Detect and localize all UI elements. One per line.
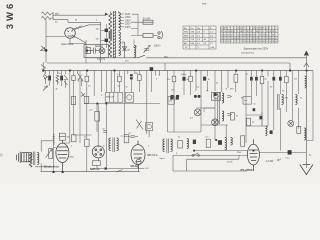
svg-text:s: s	[234, 28, 235, 30]
svg-text:mA: mA	[211, 46, 215, 49]
wire bus junction T1	[86, 46, 88, 54]
box B3	[211, 93, 220, 101]
wire verticals left group	[46, 71, 87, 173]
svg-text:2M: 2M	[135, 73, 138, 75]
capacitor C7 dark	[130, 77, 133, 79]
ground arrow	[300, 165, 313, 175]
svg-text:2k: 2k	[252, 122, 254, 124]
coil L3 pair core	[113, 138, 115, 153]
wire V x43 tuning	[41, 62, 46, 71]
wire mid horizontal left	[84, 104, 160, 133]
contact circles K3	[194, 95, 201, 98]
loudspeaker LS1	[17, 152, 32, 163]
resistor R18	[247, 118, 251, 126]
capacitor C16 dark	[259, 116, 262, 119]
svg-text:80: 80	[250, 34, 252, 36]
svg-text:41: 41	[221, 31, 223, 33]
resistor R30	[168, 97, 174, 105]
svg-text:53: 53	[272, 31, 274, 33]
trimmer arrow A1	[43, 86, 47, 91]
svg-text:1M: 1M	[294, 79, 297, 81]
svg-text:50k: 50k	[169, 100, 172, 102]
svg-text:87: 87	[250, 41, 252, 43]
svg-text:50k: 50k	[167, 79, 170, 81]
wire top feed	[53, 14, 106, 16]
wire bus H3	[43, 70, 313, 72]
label sprinkles band1	[44, 74, 302, 120]
svg-text:11: 11	[224, 34, 226, 36]
svg-text:37: 37	[227, 38, 229, 40]
fuse F1	[143, 20, 153, 24]
lamp La1	[99, 48, 105, 54]
svg-text:6k: 6k	[126, 87, 128, 89]
wire V5 anode right	[259, 151, 306, 153]
coil L2	[265, 126, 267, 136]
svg-text:68: 68	[253, 41, 255, 43]
switch S1	[138, 55, 145, 58]
trimmer caps T2	[227, 96, 232, 116]
coil L8	[304, 128, 306, 140]
mains plug P1	[153, 31, 163, 39]
svg-text:19: 19	[224, 31, 226, 33]
svg-text:1n: 1n	[101, 95, 103, 97]
svg-text:47: 47	[275, 38, 277, 40]
svg-text:71: 71	[221, 38, 223, 40]
transformer T1 secondary	[119, 13, 121, 56]
diode D1	[41, 46, 46, 51]
svg-text:4: 4	[262, 31, 263, 33]
svg-text:1M: 1M	[67, 137, 70, 139]
label right misc	[246, 74, 297, 81]
resistor R4	[56, 75, 59, 82]
capacitor C9 dark	[182, 77, 185, 81]
scan smudge left edge	[0, 154, 3, 157]
wire antenna vertical	[305, 56, 307, 168]
svg-text:1n: 1n	[300, 98, 302, 100]
resistor R26 on x87	[85, 139, 89, 146]
svg-text:e: e	[272, 28, 273, 30]
wire caps to loop	[101, 24, 107, 48]
svg-text:79: 79	[240, 41, 242, 43]
svg-text:63: 63	[247, 41, 249, 43]
resistor R12	[260, 76, 264, 83]
svg-text:50: 50	[266, 34, 268, 36]
capacitor C25 dark	[253, 108, 256, 111]
svg-text:6,3V: 6,3V	[120, 43, 125, 45]
svg-text:W: W	[75, 19, 77, 21]
svg-text:stat W: stat W	[227, 161, 233, 164]
wire grid loop	[53, 20, 101, 63]
node K2	[86, 50, 88, 52]
box B4 label	[243, 97, 252, 105]
svg-text:Skalenl.: Skalenl.	[95, 46, 104, 48]
resistor R8	[138, 75, 142, 81]
wire bottom mid	[35, 165, 144, 168]
svg-text:27: 27	[259, 31, 261, 33]
svg-text:54: 54	[256, 41, 258, 43]
svg-text:W: W	[206, 91, 208, 93]
coil L1	[305, 76, 307, 88]
svg-text:80: 80	[247, 34, 249, 36]
output transformer T4 core	[33, 152, 35, 166]
svg-text:5n: 5n	[246, 74, 248, 76]
bandfilter box BF1	[105, 93, 123, 103]
svg-text:30: 30	[221, 34, 223, 36]
svg-text:osz: osz	[244, 100, 247, 102]
resistor R14	[81, 92, 89, 103]
svg-text:12: 12	[221, 41, 223, 43]
IF T2 winding lower	[222, 111, 224, 121]
svg-text:W6e: W6e	[184, 32, 189, 34]
svg-text:74: 74	[250, 31, 252, 33]
capacitor C11 dark	[250, 77, 253, 81]
circle lamp La2	[194, 109, 201, 116]
variable capacitor C26	[144, 45, 150, 52]
resistor R28	[71, 97, 75, 105]
resistor R24	[178, 140, 183, 148]
resistor R19	[297, 126, 301, 133]
svg-text:a3: a3	[253, 28, 255, 30]
box tone B1	[146, 122, 153, 137]
svg-text:3n: 3n	[56, 89, 58, 91]
svg-text:74: 74	[253, 34, 255, 36]
svg-text:k: k	[227, 28, 228, 30]
svg-text:28: 28	[272, 34, 274, 36]
resistor R15	[95, 112, 100, 122]
svg-text:24: 24	[272, 38, 274, 40]
circle lamp La3	[288, 120, 294, 126]
svg-text:f2: f2	[262, 28, 264, 30]
svg-text:s2: s2	[266, 28, 268, 30]
svg-text:ant: ant	[55, 11, 59, 15]
coil L7	[231, 138, 233, 146]
coil L4 left	[163, 139, 165, 152]
svg-text:7: 7	[234, 34, 235, 36]
label poles	[155, 75, 161, 81]
svg-text:59: 59	[266, 41, 268, 43]
svg-text:12: 12	[243, 31, 245, 33]
diode D2	[122, 42, 126, 58]
svg-text:6: 6	[269, 34, 270, 36]
svg-text:81: 81	[269, 38, 271, 40]
wire mains vertical	[131, 14, 143, 35]
svg-text:5k: 5k	[187, 79, 189, 81]
svg-text:5: 5	[275, 34, 276, 36]
wire T1 taps	[110, 11, 124, 27]
capacitor C10 dark	[203, 77, 206, 81]
switch S3 tone	[136, 120, 143, 130]
resistor R5	[72, 76, 75, 81]
oscillator box BF2	[125, 93, 133, 103]
svg-text:220V~: 220V~	[154, 45, 162, 48]
trimmer C5	[64, 75, 69, 85]
svg-text:18: 18	[234, 38, 236, 40]
tube V4 oval	[131, 141, 145, 169]
capacitor C6 dark	[130, 74, 133, 76]
svg-text:9: 9	[237, 31, 238, 33]
svg-text:DKJe: DKJe	[131, 164, 138, 168]
svg-text:3W6: 3W6	[202, 4, 207, 6]
svg-text:3 W 6: 3 W 6	[5, 3, 16, 29]
svg-text:72: 72	[234, 41, 236, 43]
IF T2 winding upper	[222, 93, 224, 103]
capacitor Cg2 dark	[105, 39, 108, 42]
pot circle P3	[136, 157, 141, 172]
svg-text:46: 46	[275, 41, 277, 43]
svg-text:Netz: Netz	[164, 56, 168, 59]
svg-text:Spannungen bei 220V: Spannungen bei 220V	[244, 47, 269, 50]
resistor R17	[230, 113, 234, 120]
tube V1	[65, 28, 76, 39]
capacitor C19 dark	[193, 140, 196, 144]
svg-text:46: 46	[247, 31, 249, 33]
coil L6	[225, 138, 227, 151]
svg-text:72: 72	[237, 34, 239, 36]
T3 winding left	[282, 95, 284, 105]
svg-text:Grundig Einst.: Grundig Einst.	[241, 51, 255, 54]
svg-text:Halo W6e: Halo W6e	[61, 42, 74, 46]
svg-text:Lautstärke: Lautstärke	[53, 133, 56, 145]
svg-text:50: 50	[227, 31, 229, 33]
svg-text:7: 7	[256, 34, 257, 36]
svg-text:15: 15	[240, 38, 242, 40]
wire L11	[133, 40, 135, 58]
svg-text:5k: 5k	[254, 104, 256, 106]
svg-text:b: b	[250, 28, 251, 30]
coil L3 right	[117, 138, 119, 151]
table voltage chart	[221, 26, 279, 43]
antenna chevron	[304, 63, 309, 67]
transformer T1 core	[113, 11, 115, 58]
capacitor Cg1 dark	[105, 29, 108, 32]
svg-text:71: 71	[250, 38, 252, 40]
capacitor C21 dark junction	[288, 150, 292, 154]
svg-text:Si 0,8A: Si 0,8A	[143, 17, 151, 20]
svg-text:74: 74	[262, 34, 264, 36]
wire right area horizontals	[246, 112, 268, 126]
svg-text:73: 73	[266, 38, 268, 40]
resistor R27	[71, 135, 76, 142]
svg-text:k2: k2	[256, 28, 258, 30]
svg-text:PY+3500: PY+3500	[241, 168, 253, 172]
svg-text:40: 40	[262, 41, 264, 43]
wire arrow into T1	[105, 13, 108, 16]
capacitor C24	[103, 131, 107, 133]
tube V3 circle	[92, 146, 104, 158]
label tap voltages	[125, 13, 131, 29]
svg-text:74: 74	[262, 38, 264, 40]
wire v2 connections	[54, 71, 92, 148]
resistor R1	[42, 12, 52, 15]
svg-text:39: 39	[247, 38, 249, 40]
resistor R3	[84, 44, 108, 57]
table tube data	[183, 26, 216, 49]
svg-text:26: 26	[243, 41, 245, 43]
resistor R11 tall	[234, 74, 238, 82]
svg-text:68: 68	[240, 31, 242, 33]
capacitor C20 dark	[218, 140, 222, 145]
resistor R7	[118, 76, 122, 82]
wire verticals mid group	[94, 63, 165, 170]
svg-text:69: 69	[237, 38, 239, 40]
svg-text:70: 70	[224, 41, 226, 43]
node bottom dots	[53, 167, 107, 173]
table1 text	[184, 28, 214, 49]
wire bottom bus left	[41, 171, 140, 173]
svg-text:83: 83	[231, 31, 233, 33]
resistor R22 under V3	[92, 158, 100, 166]
table2 text	[221, 28, 277, 44]
node dots mid wire	[96, 103, 107, 105]
coil L4 core	[167, 139, 169, 154]
svg-text:d: d	[269, 28, 270, 30]
svg-text:13: 13	[259, 38, 261, 40]
svg-text:91: 91	[227, 41, 229, 43]
svg-text:0,1A 7V: 0,1A 7V	[97, 58, 106, 61]
svg-text:g2: g2	[224, 28, 226, 30]
svg-text:8: 8	[275, 31, 276, 33]
svg-text:17: 17	[224, 38, 226, 40]
svg-text:23: 23	[256, 38, 258, 40]
T3 winding right	[295, 95, 297, 105]
svg-text:28: 28	[243, 34, 245, 36]
svg-text:58: 58	[272, 41, 274, 43]
wire T4 top	[41, 141, 54, 172]
svg-text:a1: a1	[221, 28, 223, 30]
wire bottom right net	[173, 151, 248, 171]
switch S4	[116, 170, 123, 172]
filament winding L11	[134, 45, 136, 57]
capacitor C3 dark	[48, 76, 51, 81]
svg-text:8: 8	[231, 41, 232, 43]
svg-text:15: 15	[240, 34, 242, 36]
resistor R2	[42, 12, 54, 20]
IF transformer T3 core	[278, 94, 280, 110]
svg-text:7: 7	[253, 31, 254, 33]
svg-text:54: 54	[231, 34, 233, 36]
svg-text:240V: 240V	[125, 26, 131, 29]
svg-text:70: 70	[227, 34, 229, 36]
switch S5	[192, 153, 200, 156]
resistor R25	[206, 139, 210, 147]
wire tube anode	[70, 26, 86, 63]
coil L3 left	[109, 138, 111, 151]
svg-text:DKJ: DKJ	[184, 39, 188, 41]
coil L5	[187, 139, 189, 149]
svg-text:4k: 4k	[236, 116, 238, 118]
node K1	[45, 49, 47, 51]
svg-text:87: 87	[253, 38, 255, 40]
svg-text:Sperr: Sperr	[160, 157, 165, 160]
svg-text:1W6: 1W6	[237, 152, 242, 154]
label sprinkles band2	[71, 136, 312, 164]
antenna arrow up	[304, 51, 309, 56]
label mid right	[236, 91, 285, 124]
svg-text:73: 73	[259, 34, 261, 36]
capacitor C23 electrolytic b	[176, 95, 180, 100]
svg-text:NB5 Gr: NB5 Gr	[90, 167, 101, 171]
capacitor C12 dark	[255, 77, 258, 81]
resistor R13	[285, 76, 289, 82]
svg-text:NB5 DKJe: NB5 DKJe	[147, 155, 158, 157]
svg-text:2x50µ: 2x50µ	[181, 74, 187, 76]
svg-text:h: h	[275, 28, 276, 30]
node bus dots	[42, 69, 307, 72]
svg-text:1,4 ZW: 1,4 ZW	[266, 160, 274, 163]
capacitor C4 dark	[60, 76, 63, 81]
capacitor C17 dark	[270, 130, 273, 134]
svg-text:73: 73	[243, 38, 245, 40]
output transformer T4 secondary	[37, 153, 39, 165]
transformer T1 primary	[109, 13, 112, 57]
svg-text:53: 53	[231, 38, 233, 40]
wire bus H2	[47, 63, 290, 71]
node dots bottom right	[193, 139, 254, 151]
resistor R23	[124, 135, 129, 143]
svg-text:g3: g3	[259, 28, 261, 30]
wire verticals far right	[246, 71, 313, 151]
capacitor C8 dark on bus	[150, 67, 154, 70]
svg-text:55: 55	[269, 31, 271, 33]
svg-text:x: x	[247, 28, 248, 30]
resistor R20	[49, 149, 53, 159]
capacitor C18 top V4	[131, 136, 138, 138]
label sprinkles top	[55, 19, 168, 62]
output transformer T4 primary	[29, 153, 32, 168]
tube V2 oval	[56, 140, 69, 171]
resistor R9	[172, 76, 176, 82]
capacitor C15 dark	[214, 92, 217, 96]
switch S2	[78, 73, 84, 81]
svg-text:7: 7	[237, 41, 238, 43]
lamp La4	[212, 119, 219, 126]
svg-text:11: 11	[266, 31, 268, 33]
title 3W6	[5, 3, 16, 29]
potentiometer P2 arrow	[46, 150, 52, 158]
fuse F2	[143, 34, 153, 38]
wire speaker to T4	[31, 155, 33, 160]
svg-text:64: 64	[256, 31, 258, 33]
wire verticals right group	[168, 71, 236, 141]
wire mid right horizontals	[168, 108, 228, 132]
tube V5 oval	[247, 139, 259, 171]
svg-text:Wechselstr.: Wechselstr.	[44, 164, 60, 168]
capacitor C22 electrolytic a	[170, 95, 174, 100]
svg-text:W6e: W6e	[70, 157, 75, 159]
IF transformer T2 core	[218, 92, 220, 124]
resistor R6	[85, 76, 89, 82]
resistor R10	[189, 76, 193, 81]
svg-text:a2: a2	[237, 28, 239, 30]
capacitor C2	[43, 75, 48, 81]
svg-text:74: 74	[269, 41, 271, 43]
resistor R29	[241, 136, 245, 147]
svg-text:MW LW: MW LW	[106, 97, 115, 99]
resistor R16	[59, 133, 65, 140]
svg-text:6: 6	[234, 31, 235, 33]
svg-text:1M: 1M	[171, 90, 174, 92]
wire cathode drop	[46, 20, 65, 63]
capacitor C13 dark	[272, 77, 275, 81]
svg-text:99: 99	[259, 41, 261, 43]
capacitor C1	[87, 48, 99, 54]
wire bus H1	[87, 57, 306, 59]
capacitor C14 dark	[279, 77, 282, 81]
svg-text:g1: g1	[240, 28, 242, 30]
coil L4 right	[171, 139, 173, 152]
